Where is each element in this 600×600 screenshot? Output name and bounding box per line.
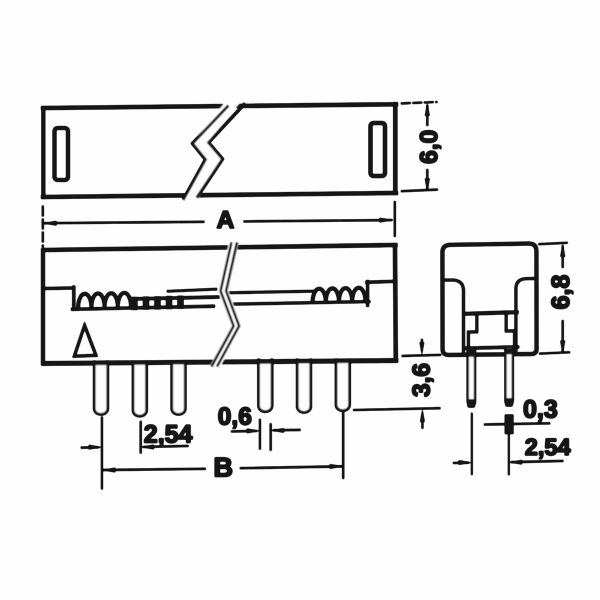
dim 6,0 top extension <box>402 102 437 103</box>
top view left slot <box>55 128 69 180</box>
dim 2,54 right segment <box>144 445 188 448</box>
side view right leg dark tip <box>505 398 513 407</box>
dim 6,8 top arrowhead <box>560 244 565 257</box>
front view cable top line left <box>168 289 216 291</box>
dim 2,54 left arrowhead <box>89 445 102 450</box>
dim 2,54R left leg extension <box>471 414 473 475</box>
top view break line right <box>198 105 245 197</box>
top view break white channel <box>183 100 243 201</box>
dim 6,0 top arrowhead <box>425 103 430 116</box>
svg-text:A: A <box>217 207 235 234</box>
dim 6,0 bottom extension <box>402 190 437 192</box>
dim 6,0 bottom segment <box>426 170 428 189</box>
dim 0,6 right pin-edge extension <box>270 424 272 450</box>
svg-text:3,6: 3,6 <box>409 363 436 397</box>
dim 6,8 top extension <box>539 243 567 244</box>
dim 2,54 right arrowhead <box>141 445 154 449</box>
top view right slot <box>371 123 386 176</box>
dim A right arrowhead <box>380 218 393 223</box>
side view latch bar <box>465 312 517 314</box>
dim 6,8 bottom extension <box>540 352 569 353</box>
dim 3,6 bottom segment <box>421 422 423 428</box>
svg-text:0,6: 0,6 <box>218 403 252 430</box>
dim 3,6 top extension <box>403 355 441 356</box>
top view break line left <box>184 107 228 199</box>
dim 0,3 leader line <box>485 423 549 424</box>
front view internal step left vertical <box>72 287 75 309</box>
top view left edge <box>41 108 45 197</box>
dim 3,6 bottom extension <box>354 408 440 410</box>
dim 0,6 left pin-edge extension <box>259 420 261 449</box>
front view right edge <box>393 245 398 361</box>
front view contact arches right group <box>313 288 366 303</box>
top view right edge <box>393 104 397 193</box>
side view right leg dark root <box>505 348 512 354</box>
side view right hook <box>506 315 514 347</box>
dim 2,54R left segment <box>454 462 468 464</box>
dim B line left piece <box>104 469 205 470</box>
front view top edge <box>44 245 396 250</box>
dim A left extension line <box>42 207 44 247</box>
dim A left arrowhead <box>43 221 56 226</box>
dim 2,54 left arrow segment <box>82 446 98 448</box>
dim 6,8 bottom arrowhead <box>560 341 565 354</box>
dim 0,6 right arrowhead <box>271 428 284 432</box>
pin 3 <box>172 362 185 414</box>
front view polarity triangle <box>74 326 96 357</box>
front view cable top line right <box>229 291 314 293</box>
top view top edge <box>43 104 396 108</box>
side view left inner wall <box>443 280 464 353</box>
front view internal step right vertical <box>366 282 369 306</box>
dim 6,0 bottom arrowhead <box>425 179 430 192</box>
top view bottom edge <box>43 193 396 197</box>
front view bottom edge <box>44 361 397 364</box>
side view body outline <box>442 244 536 355</box>
svg-text:2,54: 2,54 <box>525 434 571 460</box>
svg-text:6,8: 6,8 <box>547 275 575 310</box>
dim A line left piece <box>45 222 204 223</box>
svg-text:6,0: 6,0 <box>416 130 443 164</box>
dim 0,6 left segment <box>232 430 256 432</box>
dim 0,6 right segment <box>274 429 300 431</box>
dim 6,0 top segment <box>426 106 428 125</box>
pin 5 <box>297 360 310 412</box>
dim B left arrowhead <box>102 468 115 473</box>
dim 2,54R right arrowhead <box>509 460 522 464</box>
pin 6 <box>336 360 349 411</box>
side view left leg <box>468 349 475 407</box>
pin 2 <box>133 362 146 416</box>
side view left leg dark tip <box>468 399 476 408</box>
dim 6,8 bottom segment <box>562 321 564 351</box>
dim 3,6 top arrowhead <box>420 342 424 355</box>
dim 6,8 top segment <box>562 247 564 268</box>
dim B right arrowhead <box>330 464 343 469</box>
dim 2,54R right segment <box>512 461 562 462</box>
side view right leg <box>506 348 513 405</box>
dim 3,6 top segment <box>421 340 423 345</box>
side view bottom block line <box>466 347 518 348</box>
dim 3,6 bottom arrowhead <box>420 409 424 422</box>
front view contact comb teeth <box>134 299 180 307</box>
svg-text:B: B <box>213 453 233 483</box>
dim A line right piece <box>245 220 392 221</box>
pin 4 <box>259 360 272 412</box>
front view contact arches left group <box>78 293 131 308</box>
dim B right extension <box>342 412 344 478</box>
dim B left extension <box>101 418 103 489</box>
front view contact band left <box>131 297 218 299</box>
pin 1 <box>94 362 107 414</box>
front view break line right <box>218 244 240 366</box>
dim 2,54R right leg extension <box>508 434 510 474</box>
dim A right extension line <box>394 202 396 236</box>
front view internal step left horizontal <box>44 287 73 290</box>
dim 0,6 left arrowhead <box>247 429 260 434</box>
front view break white channel <box>215 242 237 367</box>
dim 2,54 pin2 extension <box>140 422 142 453</box>
dim 0,3 filled arrow bar <box>505 415 513 434</box>
svg-text:0,3: 0,3 <box>523 396 558 424</box>
side view left hook <box>468 315 476 348</box>
dim B line right piece <box>241 466 342 468</box>
front view internal step right horizontal <box>367 281 396 282</box>
front view left edge <box>41 250 45 364</box>
front view cable bottom line right <box>229 302 370 305</box>
front view channel bottom line left <box>73 306 214 309</box>
svg-text:2,54: 2,54 <box>144 421 193 449</box>
side view left leg dark root <box>468 348 475 357</box>
dim 2,54R left arrowhead <box>459 460 472 465</box>
front view break line left <box>212 244 234 366</box>
side view right inner wall <box>516 279 537 353</box>
